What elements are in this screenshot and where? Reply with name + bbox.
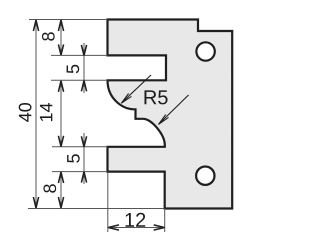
arrowhead 14 upper — [58, 81, 63, 92]
dimension line 40 — [35, 20, 37, 209]
dimension line 14 — [60, 80, 62, 147]
dimension label 8 bottom (rotated) — [43, 184, 56, 192]
dimension line 8 top — [60, 20, 62, 56]
dimension label 14 (rotated) — [40, 103, 52, 121]
dimension line 12 — [108, 227, 165, 229]
arrowhead 5 top outside-upper — [81, 45, 86, 56]
bottom mounting hole — [196, 167, 214, 185]
dimension label 40 (rotated) — [19, 103, 32, 122]
extension line width left — [107, 173, 109, 233]
arrowhead 8 top lower — [58, 44, 63, 55]
arrowhead 12 right — [154, 225, 165, 230]
extension line slot top — [51, 54, 108, 56]
arrowhead 8 bottom upper — [58, 172, 63, 183]
dimension label 5 top (rotated) — [67, 65, 80, 74]
dimension line 5 bottom — [83, 133, 85, 184]
arrowhead 12 left — [108, 225, 119, 230]
extension line tab bottom — [52, 171, 108, 173]
arrowhead 5 top outside-lower — [81, 81, 86, 92]
leader line R5 to cove radius — [121, 75, 151, 103]
dimension line 8 bottom — [60, 172, 62, 209]
arrowhead 5 bottom outside-lower — [81, 172, 86, 183]
extension line width right — [164, 209, 166, 232]
extension line profile flat — [52, 146, 108, 148]
profile cutter plate body (grey) with moulding profile cut on left side — [108, 20, 233, 209]
dimension label 12 — [126, 213, 146, 227]
dimension label 8 top (rotated) — [42, 32, 55, 40]
dimension line 5 top — [83, 43, 85, 93]
arrowhead 8 bottom lower — [58, 197, 63, 208]
leader line R5 to roundover radius — [159, 95, 189, 124]
arrowhead 8 top upper — [58, 20, 63, 31]
radius label R5 — [145, 90, 168, 104]
arrowhead 40 bottom — [33, 197, 38, 208]
arrowhead 5 bottom outside-upper — [81, 136, 86, 147]
extension line top edge — [29, 19, 108, 21]
arrowhead 14 lower — [58, 136, 63, 147]
extension line plate bottom — [28, 208, 165, 210]
dimension label 5 bottom (rotated) — [67, 154, 80, 163]
arrowhead 40 top — [33, 20, 38, 31]
extension line slot bottom — [51, 79, 108, 81]
top mounting hole — [196, 42, 214, 60]
